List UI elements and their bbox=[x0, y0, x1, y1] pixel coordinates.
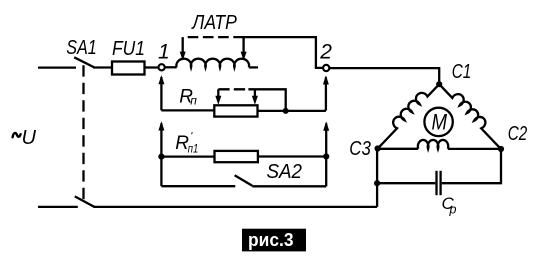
svg-text:р: р bbox=[449, 203, 457, 217]
svg-text:2: 2 bbox=[319, 40, 332, 63]
svg-text:FU1: FU1 bbox=[112, 38, 145, 60]
svg-text:C1: C1 bbox=[452, 61, 472, 83]
svg-text:п: п bbox=[190, 93, 197, 107]
svg-text:рис.3: рис.3 bbox=[248, 229, 294, 250]
svg-text:SA2: SA2 bbox=[267, 161, 303, 183]
svg-text:SA1: SA1 bbox=[66, 37, 97, 59]
svg-text:U: U bbox=[22, 127, 37, 149]
svg-text:C3: C3 bbox=[349, 138, 371, 160]
svg-text:п1: п1 bbox=[188, 142, 199, 156]
svg-text:ЛАТР: ЛАТР bbox=[191, 12, 238, 34]
svg-text:C2: C2 bbox=[508, 123, 528, 145]
svg-text:1: 1 bbox=[158, 40, 170, 63]
svg-text:M: M bbox=[431, 110, 447, 135]
